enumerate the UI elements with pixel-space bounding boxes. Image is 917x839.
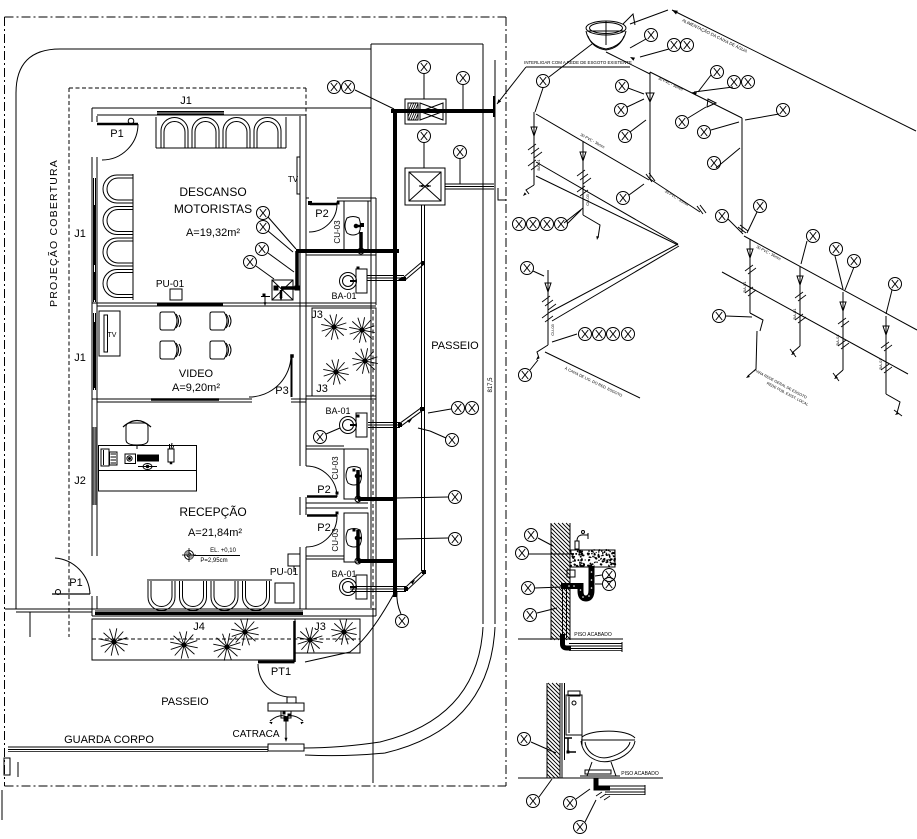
- svg-text:BA-01: BA-01: [325, 406, 350, 416]
- svg-text:817,5: 817,5: [488, 377, 494, 393]
- svg-text:EL. +0,10: EL. +0,10: [210, 548, 237, 554]
- svg-text:À CAIXA DE LIG. DO RED. ESGOTO: À CAIXA DE LIG. DO RED. ESGOTO: [564, 366, 623, 397]
- svg-text:P=2,95cm: P=2,95cm: [200, 558, 227, 564]
- svg-text:A=19,32m²: A=19,32m²: [186, 227, 240, 239]
- svg-text:PASSEIO: PASSEIO: [431, 340, 479, 352]
- svg-text:PU-01: PU-01: [156, 279, 185, 290]
- svg-text:DESCANSO: DESCANSO: [179, 185, 246, 199]
- svg-text:P2: P2: [317, 522, 330, 534]
- svg-text:30 PVC - 30mm: 30 PVC - 30mm: [664, 189, 689, 207]
- svg-text:BA-01: BA-01: [331, 291, 356, 301]
- svg-text:CU-03: CU-03: [585, 193, 590, 205]
- svg-text:PU-01: PU-01: [270, 567, 299, 578]
- svg-text:PROJEÇÃO COBERTURA: PROJEÇÃO COBERTURA: [47, 159, 60, 307]
- svg-text:P1: P1: [69, 577, 82, 589]
- svg-text:J3: J3: [311, 309, 323, 321]
- svg-text:J1: J1: [180, 95, 192, 107]
- svg-text:J3: J3: [316, 383, 328, 395]
- svg-text:TV: TV: [108, 332, 117, 339]
- svg-text:J2: J2: [74, 475, 86, 487]
- svg-text:PASSEIO: PASSEIO: [161, 696, 209, 708]
- svg-text:BA-01: BA-01: [331, 569, 356, 579]
- svg-text:BA-01: BA-01: [878, 358, 883, 370]
- svg-text:PISO ACABADO: PISO ACABADO: [621, 771, 659, 777]
- svg-text:GUARDA CORPO: GUARDA CORPO: [64, 734, 154, 746]
- svg-text:PARA REDE GERAL DE ESGOTO: PARA REDE GERAL DE ESGOTO: [754, 369, 808, 400]
- svg-text:INTERLIGAR COM A REDE DE ESGOT: INTERLIGAR COM A REDE DE ESGOTO EXISTENT…: [524, 60, 632, 65]
- svg-text:BA-01: BA-01: [742, 281, 747, 293]
- svg-text:CU-03: CU-03: [550, 323, 555, 335]
- svg-text:BA-01: BA-01: [835, 334, 840, 346]
- svg-text:A=9,20m²: A=9,20m²: [172, 382, 220, 394]
- svg-text:MOTORISTAS: MOTORISTAS: [174, 202, 252, 216]
- svg-text:TV: TV: [288, 175, 299, 184]
- svg-text:30 PVC - 30mm: 30 PVC - 30mm: [657, 76, 683, 91]
- svg-text:P2: P2: [315, 208, 328, 220]
- svg-text:P2: P2: [317, 484, 330, 496]
- svg-text:PISO ACABADO: PISO ACABADO: [574, 632, 612, 638]
- svg-text:J4: J4: [193, 621, 205, 633]
- svg-text:BA-01: BA-01: [792, 308, 797, 320]
- svg-text:PT1: PT1: [271, 666, 291, 678]
- svg-text:A=21,84m²: A=21,84m²: [188, 527, 242, 539]
- svg-text:CU-03: CU-03: [333, 220, 342, 244]
- svg-text:RECEPÇÃO: RECEPÇÃO: [179, 505, 246, 519]
- svg-text:J1: J1: [74, 228, 86, 240]
- svg-text:J1: J1: [74, 352, 86, 364]
- svg-text:ALIMENTAÇÃO DA CAIXA DE ÁGUA: ALIMENTAÇÃO DA CAIXA DE ÁGUA: [681, 18, 748, 54]
- svg-text:CU-03: CU-03: [331, 456, 340, 480]
- svg-text:P3: P3: [275, 385, 288, 397]
- svg-text:30 PVC - 30mm: 30 PVC - 30mm: [756, 245, 782, 261]
- svg-text:CU-03: CU-03: [331, 528, 340, 552]
- svg-text:CATRACA: CATRACA: [232, 729, 279, 740]
- svg-text:J3: J3: [314, 621, 326, 633]
- svg-text:P1: P1: [110, 128, 123, 140]
- svg-text:VIDEO: VIDEO: [179, 368, 214, 380]
